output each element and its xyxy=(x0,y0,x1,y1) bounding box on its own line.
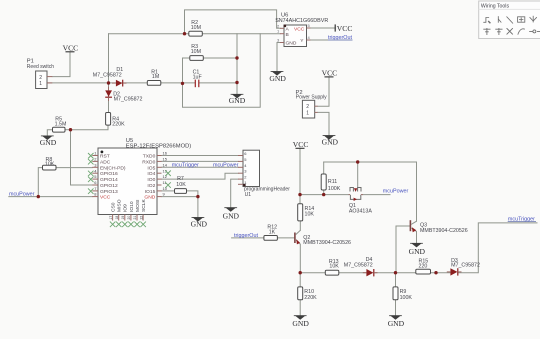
wire ESP IO0 pin12 jog up to header pin3 xyxy=(162,173,239,179)
wire D1/D2 junction down through D2 to R4 xyxy=(108,83,110,113)
wire D3 cathode right then up then right to mcuTrigger label xyxy=(458,223,537,273)
svg-text:SN74AHC1G66DBVR: SN74AHC1G66DBVR xyxy=(275,18,328,24)
VCC symbol above P1 xyxy=(63,43,79,52)
wire R4 bottom to R5 junction xyxy=(71,125,109,130)
wire P2 pin2 to VCC xyxy=(318,77,330,106)
resistor R9 100K xyxy=(393,287,412,301)
junction dot rail2 at R2 left / rail1 xyxy=(183,32,186,35)
svg-text:GND: GND xyxy=(286,40,297,46)
svg-text:1K: 1K xyxy=(269,229,276,235)
svg-text:mcuPower: mcuPower xyxy=(213,163,239,169)
wire Q3 base left then down to bottom rail xyxy=(396,226,410,273)
tool icon line xyxy=(507,17,514,24)
svg-text:U1: U1 xyxy=(245,192,252,198)
svg-text:2: 2 xyxy=(306,104,309,110)
junction dot C1 right at x237 xyxy=(235,81,238,84)
junction dot bottom rail at R9/Q3 base xyxy=(394,271,397,274)
wire header pin2 to GND xyxy=(231,179,238,207)
svg-text:10K: 10K xyxy=(329,263,339,269)
svg-text:IO15: IO15 xyxy=(145,189,156,195)
svg-text:IO4: IO4 xyxy=(147,171,155,177)
junction dot R3 branch on main wire xyxy=(181,82,184,85)
diode D4 M7_C95872 xyxy=(344,257,378,276)
resistor R14 10K xyxy=(298,204,315,221)
svg-text:1: 1 xyxy=(306,111,309,117)
wire ESP IO5 pin14 with mcuTrigger/mcuPower labels to header pin4 xyxy=(162,166,239,168)
transistor Q3 MMBT3904-C20526 xyxy=(410,220,467,234)
wire R11 bottom leg to rail xyxy=(323,190,325,195)
svg-text:GND: GND xyxy=(223,211,240,220)
wire R7 right leg down to GND vertical xyxy=(187,191,198,217)
ESP left pin numbers xyxy=(94,151,97,197)
svg-text:18: 18 xyxy=(115,216,119,220)
junction dot D1/D2 anode xyxy=(107,81,110,84)
svg-text:22: 22 xyxy=(139,216,143,220)
svg-text:B: B xyxy=(286,32,289,38)
IC U5 ESP-12F(ESP8266MOD) xyxy=(98,138,191,215)
svg-text:GND: GND xyxy=(292,319,309,328)
wire R5 junction down to ESP GPIO12 pin6 xyxy=(71,130,93,185)
svg-text:21: 21 xyxy=(133,216,137,220)
wire R5 right leg to junction xyxy=(65,129,71,131)
svg-text:M7_C95872: M7_C95872 xyxy=(451,262,480,268)
svg-text:IO0: IO0 xyxy=(147,177,155,183)
resistor R5 1.5M xyxy=(53,117,67,132)
wire Q3 emitter down to GND xyxy=(416,232,418,243)
wire R9 top leg from junction xyxy=(395,273,397,287)
wire U6 Y pin to triggerOut label xyxy=(307,39,329,41)
svg-text:M7_C95872: M7_C95872 xyxy=(93,73,122,79)
ESP right pin names xyxy=(142,154,156,201)
wire U6 GND pin to GND symbol xyxy=(277,43,280,72)
svg-text:GND: GND xyxy=(409,247,426,256)
wire down-leg rail2 to D1/D2 junction xyxy=(108,34,110,83)
resistor R8 10K xyxy=(43,157,57,170)
svg-text:GND: GND xyxy=(40,138,57,147)
diode D2 M7_C95872 xyxy=(105,87,142,103)
wire top rail from R11 to Q3 collector drop xyxy=(324,161,417,163)
svg-text:R9: R9 xyxy=(400,289,407,295)
svg-text:20: 20 xyxy=(127,216,131,220)
tool icon wire xyxy=(483,18,490,24)
ESP left pin names xyxy=(100,154,126,201)
wire ESP IO15 pin10 to R7 left leg xyxy=(162,190,175,192)
svg-text:AO3413A: AO3413A xyxy=(349,208,372,214)
tool icon vcc flag 2 xyxy=(495,28,502,35)
transistor Q2 MMBT3904-C20526 xyxy=(295,230,351,246)
tool icon bus xyxy=(498,16,501,23)
VCC symbol above P2 xyxy=(322,68,338,77)
resistor R2 10M xyxy=(189,20,203,36)
junction dot R8 on mcuPower wire xyxy=(37,195,40,198)
GND symbol below R7/ESP pin9 xyxy=(191,217,208,228)
wire C1 right plate to x237 vertical xyxy=(199,82,237,84)
capacitor C1 1uF xyxy=(193,69,203,87)
svg-text:220K: 220K xyxy=(112,121,125,127)
wire P2 pin1 to GND xyxy=(318,112,330,135)
svg-text:GPIO14: GPIO14 xyxy=(100,177,118,183)
wire R10 bottom leg to GND xyxy=(299,300,301,315)
tool icon no connect xyxy=(507,28,513,34)
wire bottom rail junction to R13 xyxy=(300,272,325,274)
svg-text:VCC: VCC xyxy=(63,43,79,52)
svg-text:VCC: VCC xyxy=(294,26,305,32)
svg-text:VCC: VCC xyxy=(100,195,111,201)
svg-text:M7_C95872: M7_C95872 xyxy=(114,97,143,103)
svg-text:GND: GND xyxy=(229,96,246,105)
wire R8 left leg down to mcuPower line xyxy=(38,168,42,197)
resistor R4 220K xyxy=(106,113,126,128)
svg-text:RXD0: RXD0 xyxy=(142,159,155,165)
svg-text:MISO: MISO xyxy=(117,199,123,212)
svg-text:14: 14 xyxy=(163,162,168,167)
wire mcuPower net label to ESP VCC pin8 xyxy=(9,196,93,198)
svg-text:100K: 100K xyxy=(400,295,413,301)
ESP right pin numbers xyxy=(163,151,168,197)
wire R5 left leg to GND xyxy=(47,130,52,136)
wire x237 vertical from rail2 to GND xyxy=(236,34,238,94)
svg-text:R10: R10 xyxy=(304,289,314,295)
connector P2 Power Supply xyxy=(296,90,328,118)
svg-text:mcuTrigger: mcuTrigger xyxy=(172,163,199,169)
resistor R12 1K xyxy=(264,224,278,240)
wire Q1 drain drop from top rail xyxy=(357,162,359,187)
svg-text:10M: 10M xyxy=(191,49,201,55)
svg-text:16: 16 xyxy=(163,151,168,156)
svg-text:EN(CH-PD): EN(CH-PD) xyxy=(100,165,126,171)
svg-text:VCC: VCC xyxy=(337,24,353,33)
ESP bottom pin names vertical xyxy=(111,198,148,212)
svg-text:MMBT3904-C20526: MMBT3904-C20526 xyxy=(420,228,468,234)
tool icon vcc flag 1 xyxy=(483,28,490,35)
no-connect X marks ESP right pins IO4 IO2 xyxy=(165,171,171,188)
svg-text:ADC: ADC xyxy=(100,159,111,165)
svg-text:10K: 10K xyxy=(305,211,315,217)
tool icon draw spline xyxy=(518,29,525,35)
ESP right pin stubs 16-9 xyxy=(157,156,162,197)
wire R13 to D4 anode xyxy=(339,272,367,274)
GND symbol below P2 xyxy=(322,135,339,146)
GND symbol below R10 xyxy=(292,315,309,328)
GND symbol below Q3 emitter xyxy=(409,243,426,256)
resistor R11 100K xyxy=(321,174,341,192)
GND symbol below U6 xyxy=(269,71,286,83)
junction dot R3 right at x237 xyxy=(235,56,238,59)
junction dot R11 bottom xyxy=(322,193,325,196)
junction dot bottom rail right of R15 xyxy=(434,271,437,274)
wire R3 right leg to x237 vertical xyxy=(203,57,237,59)
svg-text:ESP-12F(ESP8266MOD): ESP-12F(ESP8266MOD) xyxy=(126,144,191,150)
wire R10 top leg from junction xyxy=(299,273,301,287)
wire R11 top leg to top rail xyxy=(323,162,325,174)
svg-text:triggerOut: triggerOut xyxy=(234,233,258,239)
no-connect X marks ESP left pins xyxy=(88,153,94,194)
tool icon net label xyxy=(518,17,525,22)
svg-text:R11: R11 xyxy=(328,179,337,185)
resistor R7 10K xyxy=(175,176,187,193)
svg-text:100K: 100K xyxy=(328,186,341,192)
svg-text:M7_C95872: M7_C95872 xyxy=(344,263,373,269)
GND symbol left of R5 xyxy=(40,136,57,147)
wire VCC down to Q2 collector rail junction xyxy=(299,148,301,204)
svg-text:TXD0: TXD0 xyxy=(143,154,156,160)
VCC symbol above transistor circuit xyxy=(293,140,309,149)
wire R12 right leg to Q2 base xyxy=(277,237,294,239)
svg-text:MMBT3904-C20526: MMBT3904-C20526 xyxy=(303,240,351,246)
svg-text:GND: GND xyxy=(191,219,208,228)
mosfet Q1 AO3413A xyxy=(349,188,373,215)
connector U1 programmingHeader xyxy=(238,150,290,198)
GND symbol below header pin2 xyxy=(223,207,240,220)
net label triggerOut at U6 Y xyxy=(328,35,353,41)
wire ESP GND pin9 to GND vertical xyxy=(162,196,198,198)
svg-text:IO9: IO9 xyxy=(123,204,129,212)
svg-text:mcuPower: mcuPower xyxy=(383,189,409,195)
svg-text:Wiring Tools: Wiring Tools xyxy=(481,3,510,9)
diode D1 M7_C95872 xyxy=(93,67,127,86)
ESP bottom pin stubs 17-22 xyxy=(113,215,144,221)
wire R9 bottom leg to GND xyxy=(395,300,397,315)
resistor R15 220 xyxy=(416,258,431,274)
svg-text:IO5: IO5 xyxy=(147,165,155,171)
wire rail2 from D1 junction to U6 pin B xyxy=(109,33,281,35)
junction dot ESP GND vertical xyxy=(196,195,199,198)
svg-text:GND: GND xyxy=(388,319,405,328)
svg-text:1M: 1M xyxy=(152,74,159,80)
svg-text:RST: RST xyxy=(100,154,110,160)
svg-text:220: 220 xyxy=(419,263,428,269)
svg-text:1uF: 1uF xyxy=(193,75,203,81)
connector P1 Reed switch xyxy=(27,59,54,89)
VCC flag at U6 VCC pin xyxy=(335,24,352,33)
wire D4 cathode to R15 through R9 junction xyxy=(374,272,416,274)
wire Q1 right terminal to mcuPower label xyxy=(363,194,390,196)
svg-text:10K: 10K xyxy=(176,182,186,188)
svg-text:GPIO13: GPIO13 xyxy=(100,189,118,195)
svg-text:1.5M: 1.5M xyxy=(55,122,67,128)
resistor R10 220K xyxy=(298,287,317,301)
GND symbol below x237 vertical xyxy=(229,94,246,105)
GND symbol below R9 xyxy=(388,315,405,328)
tool icon net port xyxy=(530,16,537,23)
svg-text:mcuPower: mcuPower xyxy=(9,192,35,198)
svg-text:SCLK: SCLK xyxy=(141,198,147,212)
svg-text:IO2: IO2 xyxy=(147,183,155,189)
svg-text:VCC: VCC xyxy=(322,68,338,77)
svg-text:CS0: CS0 xyxy=(111,202,117,212)
wire U6 VCC pin to VCC flag xyxy=(307,27,336,29)
resistor R13 10K xyxy=(325,259,339,275)
wire R14 bottom to Q2 collector xyxy=(299,221,301,231)
wire triggerOut label to R12 left leg xyxy=(232,237,264,239)
Wiring Tools panel xyxy=(479,1,540,39)
svg-text:19: 19 xyxy=(121,216,125,220)
junction dot top rail at Q1 xyxy=(356,160,359,163)
svg-text:IO10: IO10 xyxy=(129,201,135,212)
wire ESP TXD0 pin16 to header pin6 xyxy=(162,155,239,157)
no-connect X marks ESP bottom pins xyxy=(110,222,146,228)
svg-text:GND: GND xyxy=(322,138,339,147)
wire Q3 collector drop xyxy=(416,162,418,221)
svg-text:Power Supply: Power Supply xyxy=(296,94,327,100)
svg-text:1: 1 xyxy=(39,81,42,87)
wire R15 to D3 anode junction xyxy=(431,272,451,274)
IC U6 SN74AHC1G66DBVR xyxy=(275,13,328,47)
wire R8 right leg to ESP EN pin3 xyxy=(56,167,92,169)
svg-text:17: 17 xyxy=(109,216,113,220)
wire ESP RXD0 pin15 to header pin5 xyxy=(162,160,239,162)
junction dot bottom rail at Q2/R10 xyxy=(299,271,302,274)
junction dot R5/R4 node xyxy=(69,128,72,131)
wire junction to R14 handled above, horizontal rail to Q1 source xyxy=(300,194,349,196)
svg-text:MOSI: MOSI xyxy=(135,200,141,213)
svg-text:GPIO12: GPIO12 xyxy=(100,183,118,189)
wire rail1 from R2 junction to U6 pin A xyxy=(185,10,281,34)
svg-text:GND: GND xyxy=(269,74,286,83)
svg-text:2: 2 xyxy=(39,75,42,81)
net label mcuTrigger at right edge xyxy=(508,216,536,222)
svg-text:GPIO16: GPIO16 xyxy=(100,171,118,177)
resistor R1 1M xyxy=(147,69,161,85)
svg-text:15: 15 xyxy=(163,157,168,162)
wire main sense line from P1 pin1 to C1 left plate xyxy=(47,82,195,84)
svg-text:220K: 220K xyxy=(304,295,317,301)
junction dot VCC rail at R14 xyxy=(298,193,301,196)
resistor R3 10M xyxy=(190,44,204,60)
svg-text:10M: 10M xyxy=(191,25,201,31)
svg-text:VCC: VCC xyxy=(293,140,309,149)
wire Q2 emitter down to bottom rail junction xyxy=(299,244,301,273)
diode D3 M7_C95872 xyxy=(447,258,480,275)
tool icon pin xyxy=(529,30,540,33)
ESP bottom pin numbers xyxy=(109,216,144,220)
svg-text:10K: 10K xyxy=(45,162,55,168)
wire R3 left leg loop down and right and up to rail2 xyxy=(183,34,261,108)
ESP left pin stubs 1-8 xyxy=(92,156,98,197)
wire VCC to P1 pin2 xyxy=(52,52,70,77)
svg-text:Reed switch: Reed switch xyxy=(27,64,54,70)
